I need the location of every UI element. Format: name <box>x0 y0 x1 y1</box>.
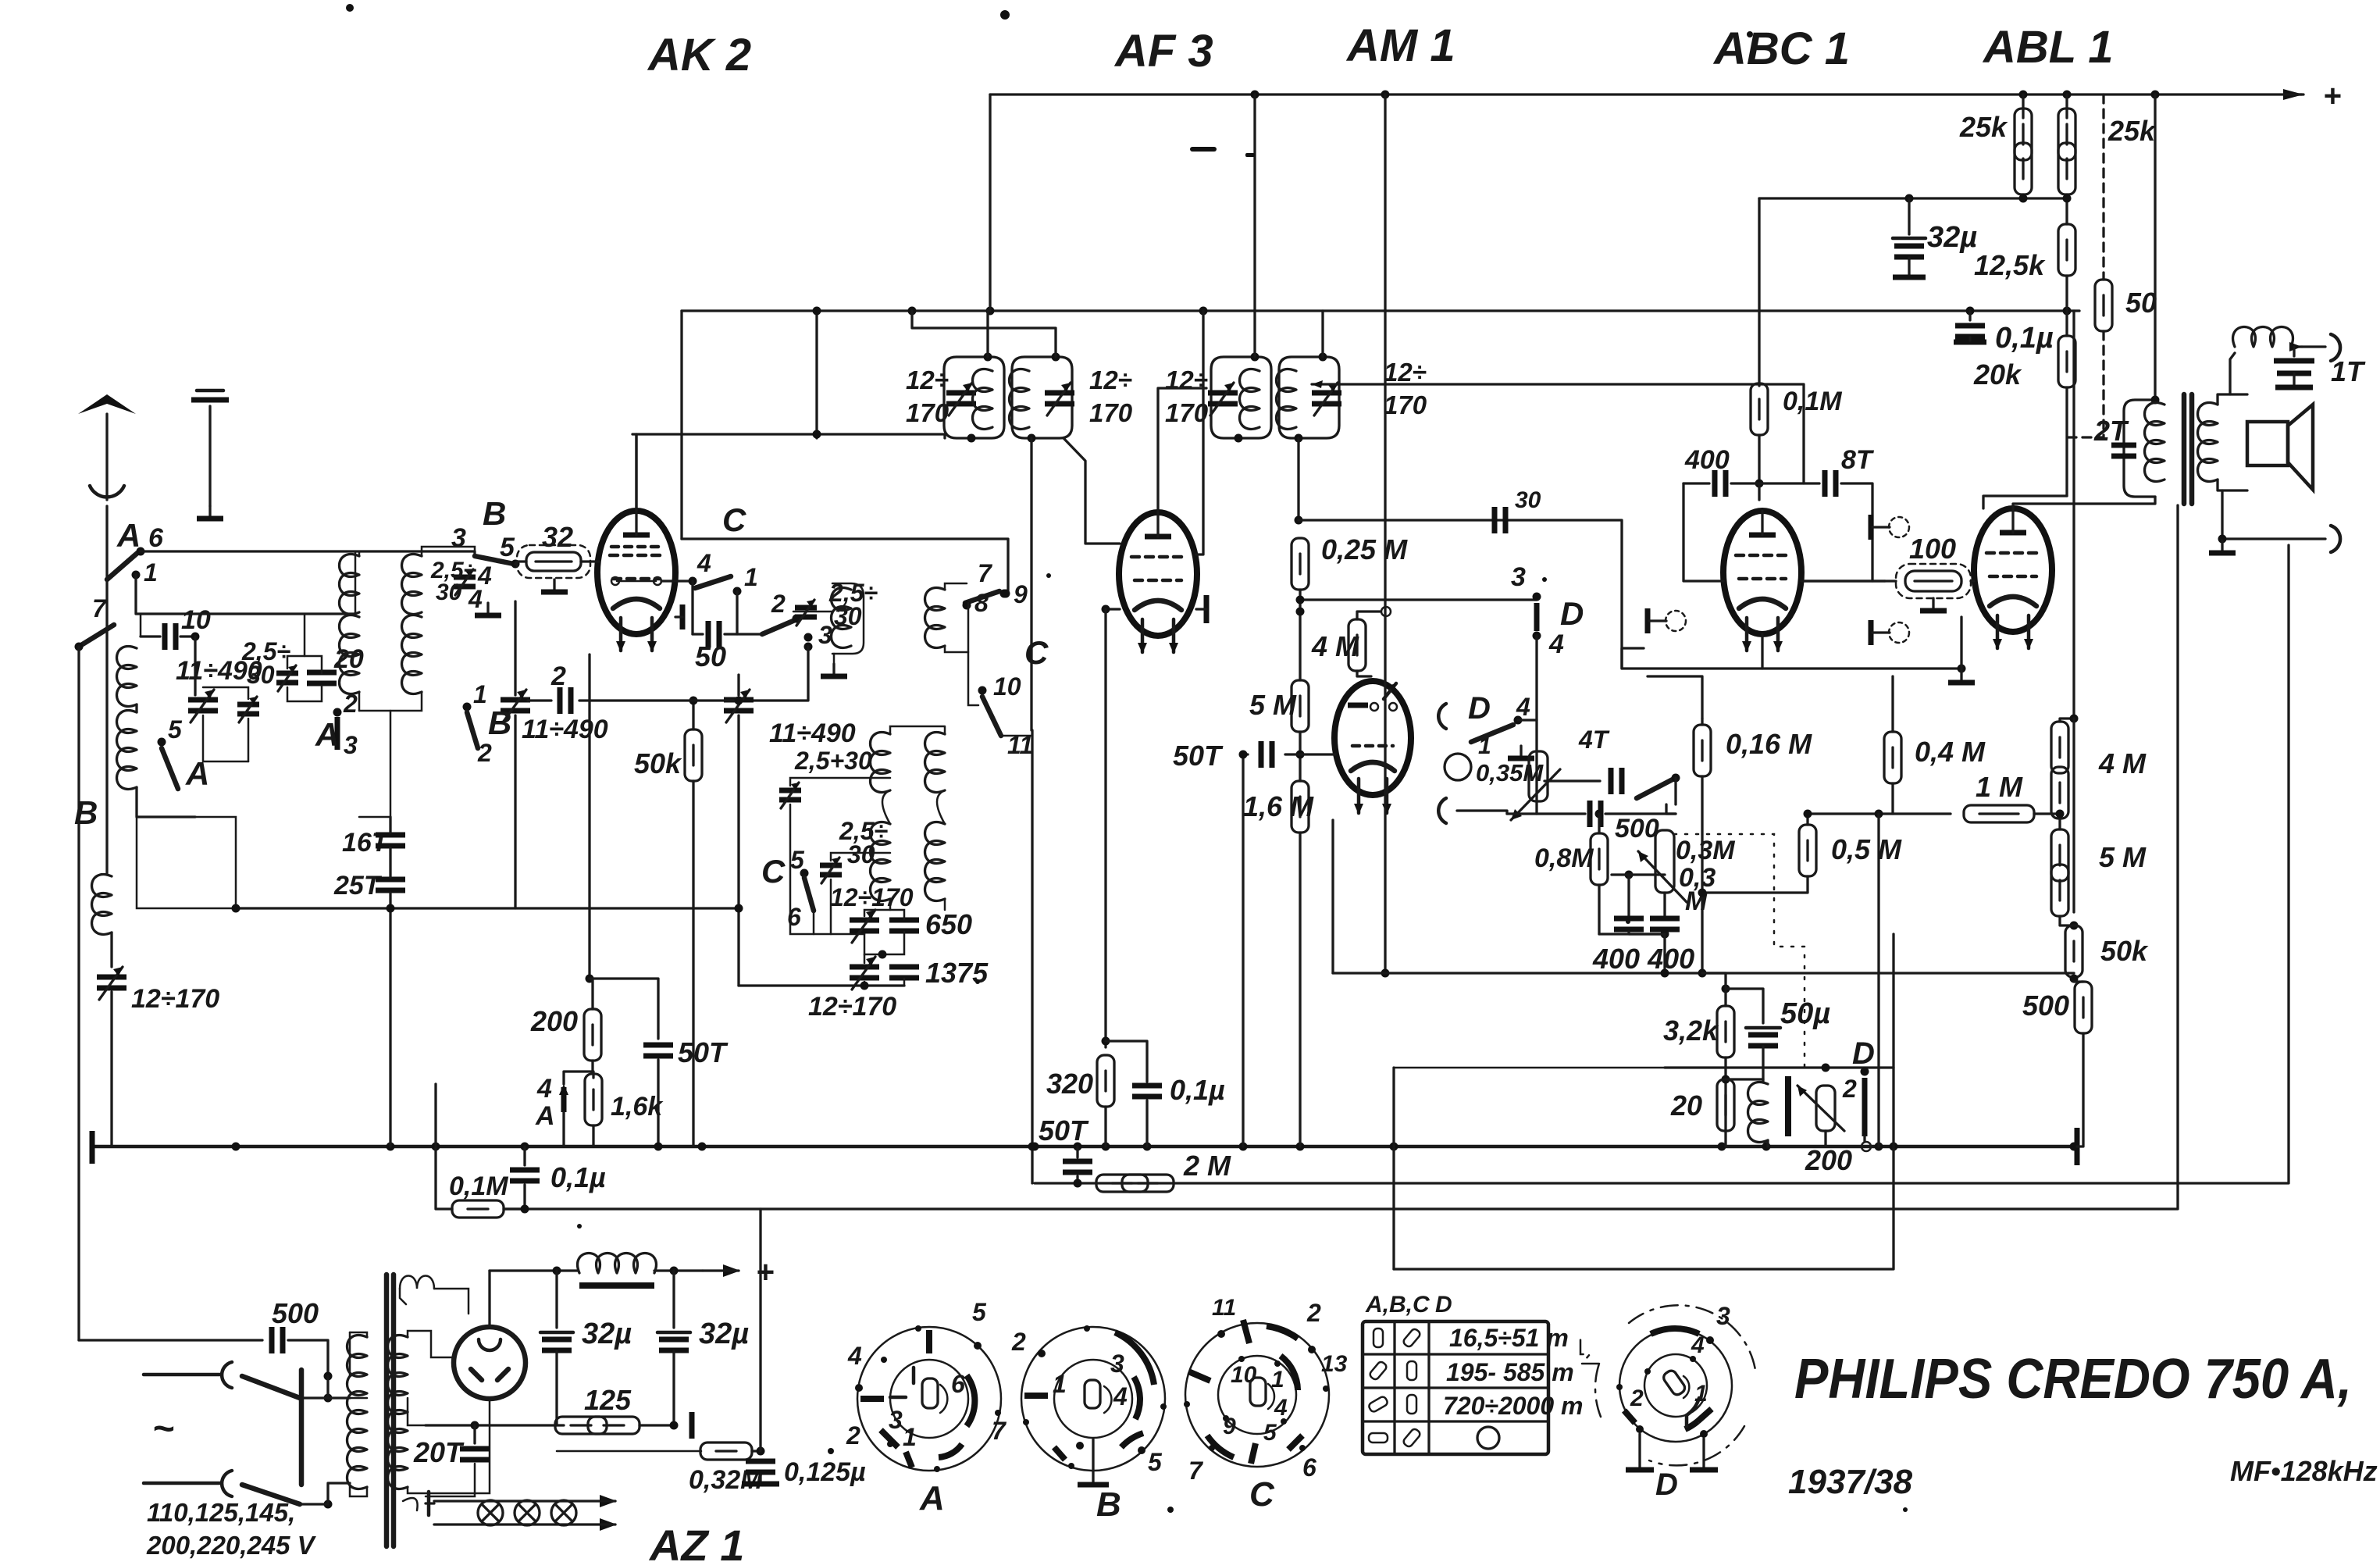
svg-text:30: 30 <box>847 840 875 868</box>
svg-text:A,B,C: A,B,C <box>1365 1292 1430 1318</box>
osc coils column <box>871 733 891 793</box>
capacitor 2 (osc coupling) <box>528 699 551 701</box>
OT core <box>2182 394 2187 504</box>
svg-text:30: 30 <box>436 580 462 605</box>
svg-text:AZ 1: AZ 1 <box>648 1521 744 1562</box>
0.4M resistor <box>1891 676 1894 732</box>
svg-text:4 M: 4 M <box>2098 747 2147 779</box>
svg-text:12÷170: 12÷170 <box>131 984 219 1014</box>
wire AM1 heater down <box>1331 820 1334 973</box>
cap 650 <box>889 920 919 931</box>
svg-text:25k: 25k <box>1959 111 2008 143</box>
0.16M resistor <box>1701 719 1703 725</box>
svg-text:7: 7 <box>92 594 108 622</box>
svg-text:5 M: 5 M <box>2099 841 2147 873</box>
dotted AVC lines <box>1674 834 1805 1068</box>
bottom osc wire <box>739 984 904 986</box>
svg-text:4: 4 <box>1548 629 1564 659</box>
svg-text:50k: 50k <box>2100 935 2149 967</box>
svg-text:0,3M: 0,3M <box>1676 836 1735 865</box>
magic eye AM1 <box>1334 681 1411 815</box>
IFT1 tuned circuit a: loop <box>944 357 1004 438</box>
trimmer + 20 cap pair <box>276 665 298 691</box>
resistor 50 dashed drop <box>2102 95 2104 280</box>
svg-text:A: A <box>535 1101 555 1131</box>
grid return wire to 4M <box>1357 612 1381 619</box>
left vertical down <box>77 647 80 1340</box>
svg-text:A: A <box>116 517 141 554</box>
IFT2 tuned circuit a loop <box>1211 357 1271 438</box>
svg-text:195- 585 m: 195- 585 m <box>1446 1358 1574 1386</box>
speaker voice coil wires <box>2218 394 2247 405</box>
svg-text:0,35M: 0,35M <box>1476 759 1544 786</box>
svg-text:20T: 20T <box>413 1436 465 1468</box>
svg-text:5: 5 <box>790 846 805 874</box>
L1 coil <box>117 647 137 707</box>
capacitor 50T below bus <box>1076 1147 1078 1157</box>
svg-text:4: 4 <box>1691 1332 1705 1358</box>
jack circle <box>1445 754 1471 780</box>
svg-text:2 M: 2 M <box>1183 1150 1231 1182</box>
svg-text:5: 5 <box>168 715 183 744</box>
phone jack D area <box>1438 704 1446 729</box>
svg-text:20: 20 <box>1670 1089 1702 1122</box>
osc RF coil loop <box>793 583 864 654</box>
resistor 25k right <box>2065 95 2068 118</box>
bus left terminal <box>90 1131 95 1164</box>
svg-text:4: 4 <box>1113 1382 1128 1410</box>
svg-text:13: 13 <box>1321 1351 1348 1377</box>
svg-text:~: ~ <box>152 1408 174 1450</box>
earth symbol <box>208 406 211 506</box>
resistor 0.1M (ABC1 grid) <box>1758 198 1760 386</box>
svg-text:9: 9 <box>1014 580 1028 608</box>
svg-text:7: 7 <box>1188 1457 1204 1485</box>
svg-text:1: 1 <box>903 1423 917 1451</box>
svg-text:0,16 M: 0,16 M <box>1726 728 1812 760</box>
speck <box>1903 1507 1908 1512</box>
svg-text:2: 2 <box>1630 1385 1644 1411</box>
capacitor 1T <box>2293 347 2295 356</box>
svg-text:B: B <box>74 794 98 831</box>
20 resistor <box>1717 1079 1734 1131</box>
resistor 5M <box>1292 680 1309 732</box>
svg-text:4T: 4T <box>1578 726 1610 754</box>
speck <box>1000 10 1010 20</box>
resistor 50k right <box>2065 925 2082 977</box>
resistor 0.8M <box>1598 814 1600 833</box>
svg-text:4: 4 <box>847 1342 862 1370</box>
svg-text:1: 1 <box>1478 733 1491 759</box>
svg-text:1: 1 <box>1053 1370 1067 1398</box>
svg-text:3: 3 <box>1716 1302 1730 1330</box>
svg-text:B: B <box>483 495 506 532</box>
svg-text:D: D <box>1435 1292 1452 1318</box>
hum coil + bar <box>1762 1079 1764 1082</box>
wire AF3 plate up to IFT2a bottom <box>1158 388 1206 511</box>
wire ABL1 plate to OT <box>2013 497 2155 508</box>
svg-text:50T: 50T <box>678 1036 729 1068</box>
svg-text:5: 5 <box>1148 1448 1163 1476</box>
11-490 varcap ant2 <box>501 690 530 722</box>
IFT2b varcap <box>1312 383 1341 415</box>
IFT1a varcap 12-170 <box>946 383 976 415</box>
ABC1 cathode down <box>1761 634 1763 669</box>
speck <box>577 1224 582 1229</box>
svg-text:12÷: 12÷ <box>1089 366 1132 394</box>
return line C below bus (AVC D line) <box>1394 934 1894 1269</box>
capacitor 50T (AM1 grid) <box>1243 753 1248 755</box>
svg-text:0,1µ: 0,1µ <box>1995 322 2054 355</box>
svg-text:ABL 1: ABL 1 <box>1982 22 2114 73</box>
screen rail <box>682 309 2079 312</box>
transformer core <box>384 1275 390 1546</box>
IFT2 tuned circuit b loop <box>1279 357 1339 438</box>
AF3 screen feed <box>1196 311 1203 555</box>
svg-text:D: D <box>1560 595 1584 632</box>
IFT1 tuned circuit b: loop <box>1012 357 1072 438</box>
antenna coupling 500 cap <box>79 1339 262 1341</box>
output transformer primary drop <box>2154 95 2156 400</box>
svg-text:170: 170 <box>1384 390 1427 419</box>
wire ABC1 plate to 100 <box>1801 580 1885 582</box>
svg-text:12÷170: 12÷170 <box>830 883 914 911</box>
antenna <box>105 414 108 500</box>
svg-text:2: 2 <box>846 1421 860 1450</box>
svg-text:0,5 M: 0,5 M <box>1831 833 1902 865</box>
20T cap <box>471 1421 479 1430</box>
svg-text:200: 200 <box>1805 1144 1852 1176</box>
ground bus <box>92 1145 2077 1149</box>
svg-text:5 M: 5 M <box>1249 689 1297 721</box>
switch A5 on L1 <box>158 738 166 747</box>
svg-text:500: 500 <box>1615 814 1659 843</box>
AK2 cathode chain wire <box>588 654 590 979</box>
svg-text:6: 6 <box>148 523 164 553</box>
svg-text:30: 30 <box>247 661 275 689</box>
svg-text:D: D <box>1655 1467 1678 1502</box>
IFT2b coil <box>1277 369 1297 430</box>
heater winding top <box>400 1276 434 1289</box>
side tick AK2 <box>680 604 686 629</box>
svg-text:50: 50 <box>2125 287 2157 319</box>
wire 1785 D-line <box>1394 1067 1665 1069</box>
wire osc line from IFT1b bottom <box>1030 438 1032 730</box>
svg-text:1,6 M: 1,6 M <box>1243 790 1314 822</box>
svg-text:110,125,145,: 110,125,145, <box>147 1498 295 1527</box>
0.125u cap <box>746 1461 775 1472</box>
svg-text:4 M: 4 M <box>1311 630 1359 662</box>
svg-text:20: 20 <box>333 644 364 674</box>
svg-text:MF•128kHz: MF•128kHz <box>2230 1455 2378 1487</box>
ground at ABC1 cathode join <box>1958 665 1966 673</box>
wire IFT2b output to ABC1 grid row <box>1312 384 1804 483</box>
IFT1b coil <box>1010 369 1030 430</box>
svg-text:3: 3 <box>889 1406 903 1434</box>
capacitor 400 (det) <box>1683 482 1709 484</box>
svg-text:1: 1 <box>473 680 487 708</box>
varcap 12-170 osc <box>850 910 879 943</box>
wire ABL1 bottom region <box>1960 617 1962 669</box>
wire screen feed drop <box>815 311 818 438</box>
grid feed wire <box>1683 483 1723 581</box>
resistor 500 right <box>2075 982 2092 1033</box>
svg-text:B: B <box>1096 1485 1121 1524</box>
svg-text:1375: 1375 <box>925 957 989 989</box>
IFT1b varcap <box>1045 383 1074 415</box>
100 resistor dashed grid stopper <box>1905 571 1961 591</box>
0.5M resistor <box>1806 814 1808 825</box>
wire AK2 plate to IFT1a bottom <box>636 434 945 511</box>
svg-text:50T: 50T <box>1039 1114 1089 1147</box>
AF3 cathode line <box>1106 608 1120 610</box>
3.2k resistor + 50u cap <box>1722 985 1730 993</box>
svg-text:0,1µ: 0,1µ <box>1170 1074 1225 1106</box>
horizontal return line under detector <box>1333 972 2074 974</box>
svg-text:170: 170 <box>906 398 950 427</box>
50T cap AK2 <box>590 979 658 1039</box>
svg-text:2: 2 <box>477 739 492 767</box>
wire IFT2a top from rail <box>1253 95 1256 357</box>
svg-text:D: D <box>1468 691 1491 726</box>
speck <box>1076 1442 1084 1450</box>
wire eye anode supply drop <box>1384 95 1386 973</box>
svg-text:50k: 50k <box>634 747 682 779</box>
trimmer 2.5-30 B <box>454 569 476 595</box>
capacitor 0.1u (AF3 cathode) <box>1106 1041 1147 1082</box>
svg-text:AM 1: AM 1 <box>1345 20 1455 71</box>
svg-text:0,1M: 0,1M <box>1783 387 1842 416</box>
svg-text:25T: 25T <box>333 871 383 900</box>
side contacts ABC1 <box>1871 515 1909 540</box>
wire vertical 1592 <box>1242 754 1244 1147</box>
svg-text:12÷170: 12÷170 <box>808 992 896 1022</box>
svg-text:200: 200 <box>530 1005 578 1037</box>
svg-text:11÷490: 11÷490 <box>769 719 856 748</box>
speck <box>1626 919 1630 924</box>
speck <box>1542 577 1547 582</box>
svg-text:0,1M: 0,1M <box>449 1171 508 1201</box>
svg-text:500: 500 <box>272 1297 319 1329</box>
bottom tank bus <box>236 907 739 909</box>
mains plugs <box>144 1373 220 1377</box>
wire 2406 down to bus <box>1877 814 1879 1147</box>
wire 0.16M top to ABC1 plate <box>1648 676 1702 719</box>
pot 0.3M <box>1666 804 1676 814</box>
tube ABC1 <box>1723 511 1801 652</box>
svg-text:5: 5 <box>500 533 515 562</box>
switch 4/1 right of tube <box>661 580 693 582</box>
svg-text:AK 2: AK 2 <box>647 30 751 80</box>
resistor 320 <box>1097 1055 1114 1107</box>
socket A <box>846 1298 1007 1517</box>
100 cap to ABL1 area <box>1622 648 1644 669</box>
varcap 1375 <box>850 957 879 990</box>
svg-text:A: A <box>315 716 339 753</box>
wire contact1 down and right <box>136 575 355 614</box>
screen line right of tube <box>680 311 682 539</box>
AK2 anode top line <box>635 434 637 512</box>
trimmer 2.5-30 <box>237 697 259 722</box>
dial lamps <box>403 1498 418 1510</box>
125 resistor <box>426 1424 564 1426</box>
wire osc C line long <box>1031 730 1033 1183</box>
0.1M horizontal + 0.1u at bus <box>436 1084 452 1209</box>
socket D <box>1580 1302 1755 1502</box>
svg-text:320: 320 <box>1046 1068 1093 1100</box>
svg-text:1 M: 1 M <box>1976 771 2023 803</box>
B section coil pair <box>340 555 360 615</box>
svg-text:C: C <box>722 501 746 538</box>
resistor 2M on return line <box>1096 1175 1148 1192</box>
1M resistor horizontal <box>1808 812 1951 815</box>
svg-text:4: 4 <box>536 1074 552 1104</box>
500 cap <box>1507 812 1537 815</box>
32u cap 1 <box>553 1267 561 1275</box>
svg-text:5: 5 <box>1263 1420 1277 1446</box>
svg-text:500: 500 <box>2022 990 2069 1022</box>
socket C <box>1184 1295 1348 1514</box>
svg-text:PHILIPS CREDO 750 A,: PHILIPS CREDO 750 A, <box>1794 1348 2352 1410</box>
svg-text:0,8M: 0,8M <box>1534 843 1594 873</box>
phone jack lower <box>1438 798 1446 823</box>
0.32M resistor <box>557 1450 701 1453</box>
padder network wires <box>968 603 978 705</box>
osc grid varcap 11-490 <box>739 647 808 701</box>
svg-text:2: 2 <box>550 662 566 691</box>
svg-text:1: 1 <box>1271 1367 1284 1393</box>
transformer primary <box>347 1336 368 1414</box>
svg-text:50T: 50T <box>1173 740 1224 772</box>
wire IFT2 bottoms join down to detector chain <box>1297 438 1299 520</box>
HV secondary <box>388 1336 408 1414</box>
wire 400 bottom to line <box>1599 934 1665 973</box>
svg-text:+: + <box>756 1255 774 1289</box>
wire 0.25M bottom to 5M <box>1299 590 1301 680</box>
svg-text:6: 6 <box>1302 1453 1316 1482</box>
wire IFT1b top to rail <box>912 311 1056 357</box>
wire IFT2b top short <box>1321 311 1324 357</box>
svg-text:0,1µ: 0,1µ <box>550 1161 606 1193</box>
speck <box>1747 31 1753 37</box>
OT primary loop <box>2124 400 2155 497</box>
svg-text:+: + <box>2323 79 2341 113</box>
svg-text:10: 10 <box>181 605 211 635</box>
svg-text:1: 1 <box>144 558 158 587</box>
svg-text:2: 2 <box>771 590 786 618</box>
speck <box>975 979 980 984</box>
svg-text:3: 3 <box>1110 1350 1124 1378</box>
32u cap 2 <box>672 1271 675 1328</box>
svg-text:100: 100 <box>1909 533 1956 565</box>
resistor 0.25M <box>1292 538 1309 590</box>
capacitor 30 <box>1495 507 1505 533</box>
band table <box>1363 1292 1583 1454</box>
OT primary coil <box>2145 403 2165 482</box>
svg-text:4: 4 <box>1274 1395 1288 1421</box>
svg-text:3: 3 <box>344 731 358 759</box>
resistor 1.6M <box>1292 781 1309 833</box>
svg-text:11: 11 <box>1212 1295 1236 1321</box>
speaker return / ground <box>2222 490 2325 539</box>
D switch upper (3/4) <box>1300 598 1537 601</box>
return line B below bus <box>504 505 2178 1209</box>
svg-text:A: A <box>919 1479 945 1517</box>
switch 2/3 osc <box>762 620 795 634</box>
C wire from AK2 <box>682 539 1008 592</box>
trimmer 2.5-30 osc2 <box>820 858 842 883</box>
speck <box>1167 1507 1174 1513</box>
1.6k resistor <box>593 1072 593 1078</box>
svg-text:1937/38: 1937/38 <box>1788 1463 1913 1501</box>
svg-text:7: 7 <box>978 559 993 587</box>
bus right terminal <box>2075 1128 2080 1165</box>
svg-text:30: 30 <box>1515 487 1541 513</box>
svg-text:400: 400 <box>1684 445 1730 475</box>
svg-text:4: 4 <box>468 585 483 613</box>
svg-text:200,220,245 V: 200,220,245 V <box>146 1531 317 1560</box>
wire IFT1a top to screen rail <box>986 311 989 357</box>
svg-text:0,125µ: 0,125µ <box>784 1457 866 1487</box>
svg-text:2: 2 <box>1842 1075 1857 1103</box>
200 pot <box>1816 1086 1835 1131</box>
svg-text:170: 170 <box>1089 398 1133 427</box>
speaker field coil top <box>2230 353 2235 394</box>
speck <box>1190 147 1217 152</box>
wire 0.25M top node / 30 wire <box>1299 520 1961 669</box>
svg-text:32: 32 <box>542 521 573 553</box>
capacitor 0.1u abc <box>1966 307 1975 316</box>
svg-text:32µ: 32µ <box>582 1318 632 1350</box>
svg-text:12,5k: 12,5k <box>1974 249 2046 281</box>
speck <box>346 4 354 12</box>
second coil + switch 7/8/9 <box>925 588 946 648</box>
switch A2/3 mid <box>333 708 342 717</box>
svg-text:B: B <box>488 704 511 741</box>
svg-text:11÷490: 11÷490 <box>522 715 608 744</box>
200 resistor <box>584 1009 601 1061</box>
antenna series coil 12-170 <box>105 580 108 875</box>
svg-text:10: 10 <box>1231 1362 1257 1388</box>
svg-text:1: 1 <box>1694 1381 1708 1407</box>
svg-text:6: 6 <box>787 903 801 931</box>
svg-text:2: 2 <box>1306 1299 1321 1327</box>
resistor chain 4M/5M right <box>2072 311 2075 719</box>
varcap 11-490 #1 <box>194 637 196 695</box>
svg-text:50: 50 <box>695 640 726 672</box>
svg-text:16,5÷51 m: 16,5÷51 m <box>1449 1324 1569 1352</box>
capacitor 32u <box>1908 198 1910 234</box>
socket B <box>1011 1325 1167 1524</box>
50 coupling cap <box>708 621 719 647</box>
svg-text:50µ: 50µ <box>1780 997 1830 1030</box>
svg-text:2,5+30: 2,5+30 <box>794 747 872 775</box>
tube AK2 <box>597 511 675 652</box>
OT secondary coil <box>2198 403 2218 482</box>
svg-text:4: 4 <box>697 549 711 577</box>
tube ABL1 <box>1974 508 2052 650</box>
resistor 20k <box>2065 311 2068 336</box>
tube AF3 <box>1119 512 1197 654</box>
svg-text:20k: 20k <box>1973 358 2022 390</box>
svg-text:D: D <box>1852 1036 1875 1071</box>
screen feed node wire <box>1759 197 2067 199</box>
return line A below bus <box>1035 545 2289 1183</box>
cap 10 <box>141 635 160 637</box>
svg-text:0,25 M: 0,25 M <box>1321 533 1408 565</box>
caps 400 400 <box>1625 871 1634 879</box>
svg-text:C: C <box>761 853 786 890</box>
